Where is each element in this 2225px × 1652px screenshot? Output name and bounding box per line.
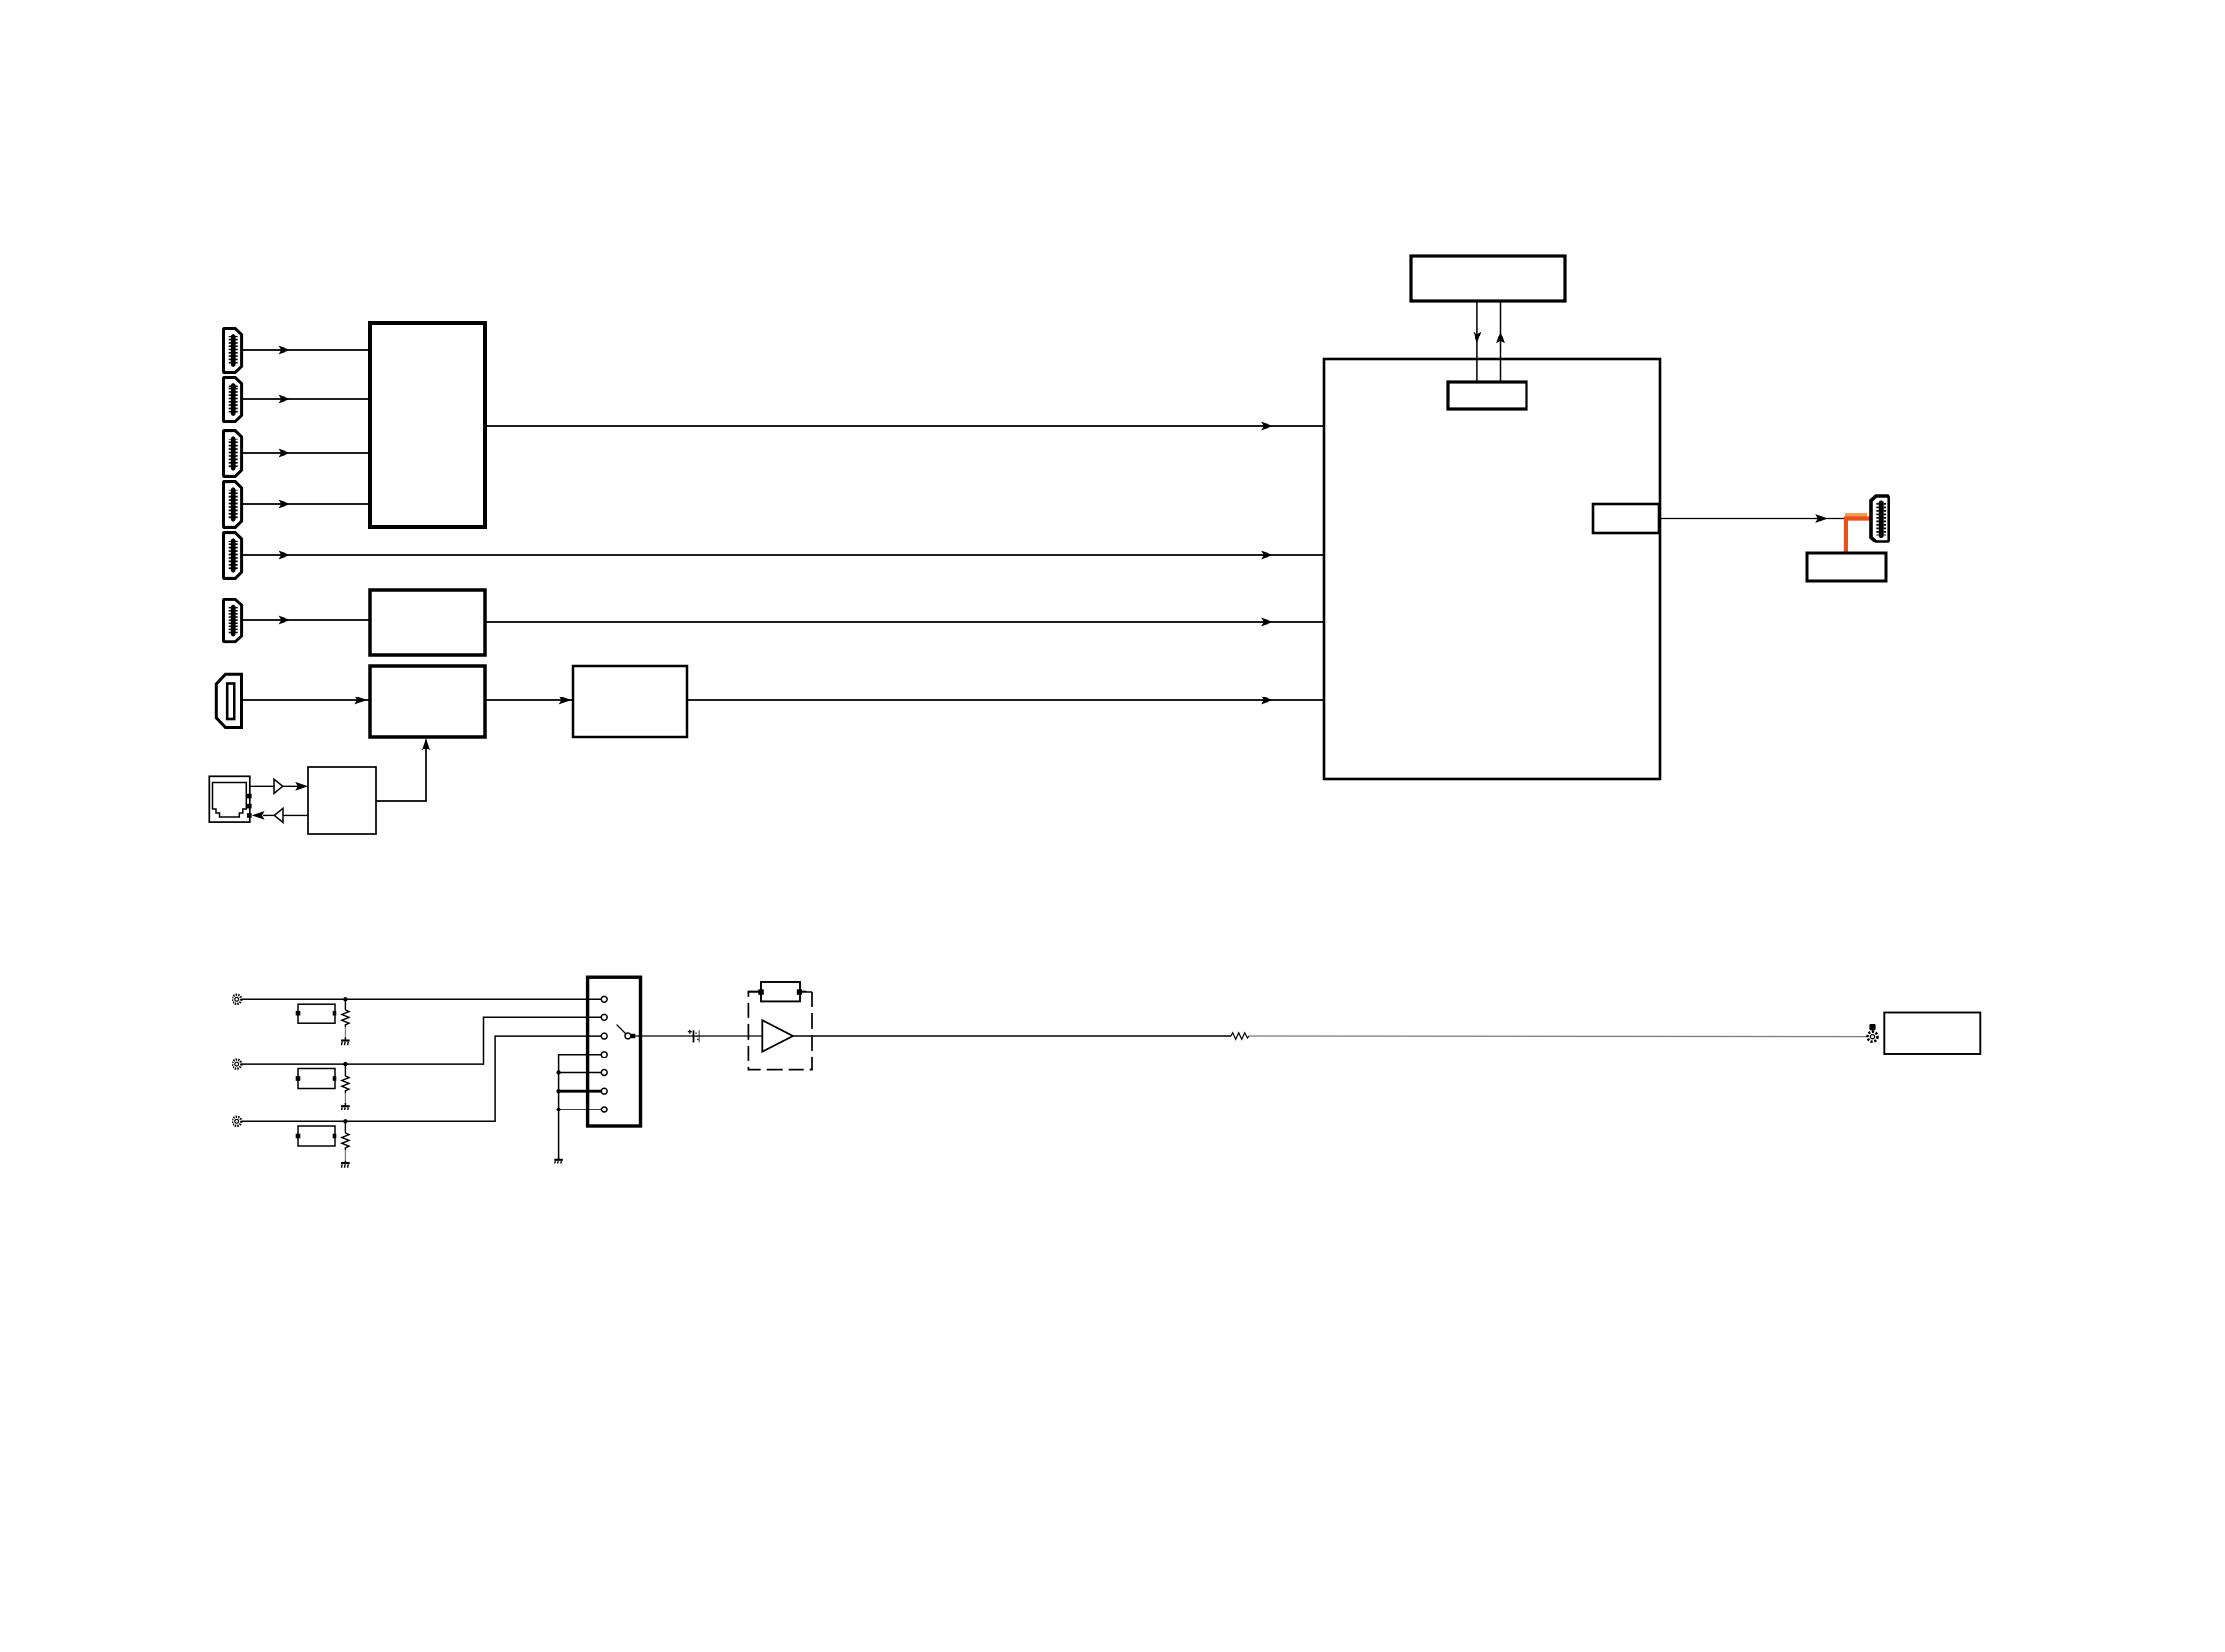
wire SW1 output to op-amp xyxy=(635,1035,762,1037)
resistor R1 xyxy=(342,999,349,1038)
block U3 receiver xyxy=(370,590,485,655)
block U4 receiver xyxy=(370,666,485,737)
switch SW1 block xyxy=(588,977,641,1126)
resistor R2 xyxy=(342,1064,349,1104)
switch SW1 pin circles xyxy=(601,996,607,1112)
op-amp U8 dashed module xyxy=(748,992,812,1070)
buffer tx xyxy=(274,779,283,793)
connector J12 audio RCA 3 xyxy=(233,1117,241,1126)
connector J8 service jack xyxy=(209,776,251,822)
wire U1 ddr port up to U7 xyxy=(1500,301,1502,382)
wire R5 to J13 xyxy=(1249,1035,1868,1038)
op-amp U8 triangle xyxy=(762,1020,793,1052)
wire U3 out to U1 xyxy=(485,621,1324,623)
connector J2 HDMI2 xyxy=(224,378,242,422)
arrow on J1 wire xyxy=(279,346,291,355)
connector J1 HDMI1 xyxy=(224,329,242,373)
junction bus pin5 xyxy=(556,1070,560,1074)
wire J11 to switch SW1 pin2 xyxy=(241,1017,601,1064)
connector J6 HDMI6 xyxy=(224,599,242,641)
block U5 processor xyxy=(573,666,687,737)
ground ch2 xyxy=(341,1103,350,1110)
arrow on J4 wire xyxy=(279,500,291,509)
connector J5 HDMI5 xyxy=(224,533,242,579)
arrow on J2 wire xyxy=(279,395,291,404)
switch SW1 common pole circle xyxy=(625,1033,631,1039)
switch SW1 wiper contact xyxy=(631,1034,635,1038)
wire buffer rx to J8 xyxy=(263,814,274,816)
arrow U5 out near U1 xyxy=(1261,697,1273,705)
connector J3 HDMI3 xyxy=(224,431,242,477)
filter FB3 xyxy=(296,1126,337,1146)
connector J11 audio RCA 2 xyxy=(233,1060,241,1069)
connector J10 audio RCA 1 xyxy=(233,995,241,1004)
wire op-amp output xyxy=(793,1035,1231,1037)
wire J6 to U3 xyxy=(242,619,370,621)
block lvds tx port on U1 xyxy=(1593,504,1659,533)
arrow into J8 xyxy=(252,811,265,820)
buffer rx xyxy=(274,808,283,822)
arrow U3 out near U1 xyxy=(1261,618,1273,627)
connector J7 HDMI out-type xyxy=(216,674,241,727)
block ddr interface inside U1 xyxy=(1448,382,1526,409)
junction node ch3 xyxy=(343,1119,347,1123)
switch SW1 pin6 stub bold xyxy=(559,1090,602,1093)
arrow into U6 xyxy=(295,782,308,791)
block U2 HDMI switch xyxy=(370,323,485,527)
junction bus pin7 xyxy=(556,1108,560,1111)
wire U2 mux out to U1 xyxy=(485,425,1324,427)
wire J12 to switch SW1 pin3 xyxy=(241,1036,601,1121)
wire lvds port to panel connector xyxy=(1659,518,1846,520)
ground ch3 xyxy=(341,1161,350,1168)
resistor R5 series xyxy=(1231,1033,1249,1040)
arrow on lvds wire xyxy=(1815,514,1828,523)
ground bus symbol xyxy=(554,1157,563,1164)
arrow mux out near U1 xyxy=(1261,422,1273,431)
wire U4 to U5 xyxy=(485,699,573,701)
wire J2 to U2 mux xyxy=(242,398,370,400)
wire U7 down to U1 ddr port xyxy=(1476,301,1478,382)
arrow on J5 wire near connector xyxy=(279,551,291,560)
wire J7 to U4 xyxy=(241,699,370,701)
arrow up on ddr wire xyxy=(1496,332,1505,344)
filter FB2 xyxy=(296,1069,337,1089)
arrow U4 to U5 xyxy=(559,697,572,705)
switch SW1 lever xyxy=(617,1025,626,1034)
block U7 DDR memory xyxy=(1411,256,1565,301)
block audio out label box xyxy=(1884,1013,1980,1055)
connector J9 panel LVDS xyxy=(1871,496,1889,542)
wire U6 rx to buffer xyxy=(283,814,308,816)
wire J3 to U2 mux xyxy=(242,452,370,454)
arrow on J7 wire xyxy=(354,697,367,705)
capacitor C1 polarized xyxy=(688,1030,699,1043)
arrow up into U4 xyxy=(422,739,431,751)
orange lvds cable xyxy=(1844,515,1870,553)
switch SW1 pin stubs xyxy=(559,999,602,1110)
arrow down on ddr wire xyxy=(1474,332,1482,344)
block U1 main SoC xyxy=(1324,359,1660,779)
wire J4 to U2 mux xyxy=(242,503,370,505)
junction bus pin6 xyxy=(556,1089,560,1093)
block U6 level converter xyxy=(308,767,376,834)
wire J1 to U2 mux xyxy=(242,349,370,351)
filter FB1 xyxy=(296,1004,337,1023)
connector J13 audio out xyxy=(1868,1024,1878,1042)
arrow on J3 wire xyxy=(279,449,291,458)
arrow on J6 wire xyxy=(279,616,291,625)
wire U5 out to U1 xyxy=(687,699,1324,701)
ground ch1 xyxy=(341,1037,350,1045)
wire buffer tx to U6 xyxy=(283,785,303,787)
block panel label box xyxy=(1807,553,1886,581)
arrow on J5 wire near U1 xyxy=(1261,551,1273,560)
junction node ch1 xyxy=(343,997,347,1001)
junction node ch2 xyxy=(343,1062,347,1066)
feedback resistor R4 xyxy=(748,982,812,1001)
connector J4 HDMI4 xyxy=(224,482,242,528)
wire J5 to U1 main IC xyxy=(242,554,1324,556)
wire J10 to switch SW1 pin1 xyxy=(241,998,601,1000)
ground bus line xyxy=(559,1055,602,1158)
wire U6 to U4 xyxy=(376,740,426,802)
resistor R3 xyxy=(342,1121,349,1161)
wire J8 tx to buffer xyxy=(250,785,274,787)
